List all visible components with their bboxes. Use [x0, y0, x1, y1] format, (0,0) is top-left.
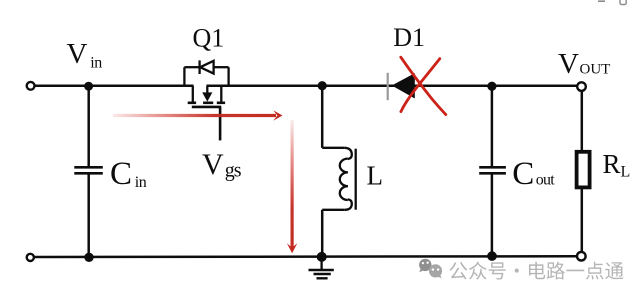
svg-text:in: in	[90, 54, 102, 71]
svg-text:in: in	[135, 174, 147, 191]
svg-text:L: L	[621, 164, 631, 181]
svg-text:out: out	[536, 171, 555, 188]
svg-text:gs: gs	[225, 160, 242, 182]
svg-text:OUT: OUT	[580, 62, 611, 78]
svg-text:C: C	[110, 156, 132, 192]
svg-text:L: L	[367, 161, 384, 191]
svg-text:V: V	[67, 38, 88, 70]
svg-text:D1: D1	[393, 23, 425, 52]
svg-text:R: R	[603, 149, 621, 179]
svg-text:V: V	[202, 148, 224, 181]
svg-text:V: V	[558, 48, 579, 80]
svg-text:C: C	[512, 156, 534, 192]
svg-text:Q1: Q1	[193, 24, 225, 53]
